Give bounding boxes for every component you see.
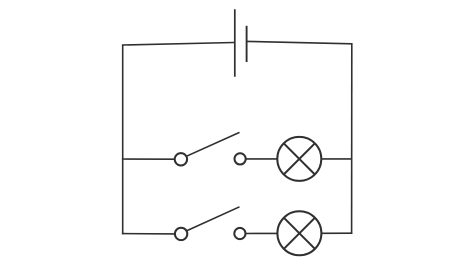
battery long plate (+) — [234, 9, 236, 77]
wire switch S2 to lamp L2 — [246, 232, 278, 234]
wire top-left (corner to battery +) — [123, 43, 234, 46]
wire lamp L2 to bottom-right corner — [321, 232, 352, 234]
switch S1 — [175, 132, 246, 165]
switch S2 — [175, 207, 246, 240]
lamp L1 — [277, 137, 321, 181]
wire bottom branch left — [122, 233, 175, 235]
wire middle branch left — [122, 158, 175, 160]
wire switch S1 to lamp L1 — [246, 158, 278, 160]
battery short plate (-) — [246, 26, 248, 62]
lamp L2 — [277, 211, 321, 255]
wire lamp L1 to right vertical — [321, 158, 352, 160]
wire left vertical — [122, 44, 124, 234]
wire right vertical — [351, 43, 353, 234]
wire top-right (battery - to corner) — [247, 41, 351, 43]
